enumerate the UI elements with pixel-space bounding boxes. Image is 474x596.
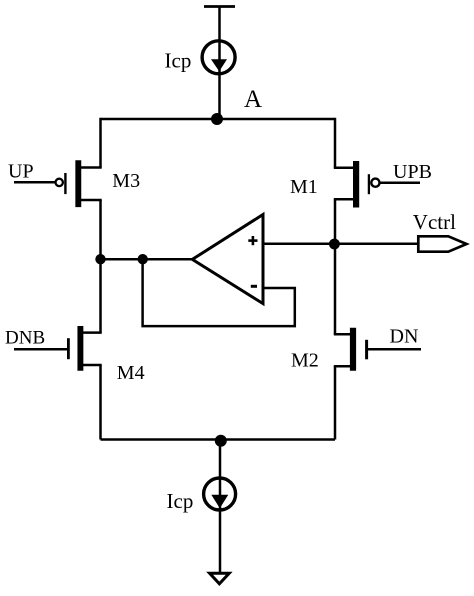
transistor M4 (NMOS) xyxy=(14,326,102,371)
wire: M3 source down to M4 drain (left rail) xyxy=(99,200,102,333)
current source I1 (top Icp) circle xyxy=(202,41,235,74)
output port Vctrl pointer xyxy=(418,236,466,251)
svg-text:Vctrl: Vctrl xyxy=(413,210,456,234)
M4 gate wire xyxy=(14,348,67,351)
M1 channel bar xyxy=(353,161,359,208)
wire supply to top current source xyxy=(218,7,221,120)
node dot feedback junction xyxy=(138,254,148,264)
M3 drain stub xyxy=(81,166,102,169)
current source I1 arrowhead xyxy=(211,59,227,71)
node dot on right rail xyxy=(329,239,340,250)
wire: op-amp output to left rail xyxy=(101,258,194,261)
transistor M1 (PMOS mirrored) xyxy=(334,161,420,208)
svg-text:UP: UP xyxy=(8,160,34,182)
M3 channel bar xyxy=(75,160,81,207)
op-amp U1 triangle xyxy=(192,215,263,304)
M1 drain stub xyxy=(334,166,354,169)
svg-text:M3: M3 xyxy=(112,170,140,192)
current source I2 arrowhead xyxy=(211,495,228,509)
M4 drain stub xyxy=(83,331,102,334)
M4 channel bar xyxy=(77,326,83,371)
svg-text:M2: M2 xyxy=(291,350,319,372)
node dot on left rail xyxy=(95,254,105,264)
M2 source stub xyxy=(334,365,351,368)
wire: M4 source down to bottom rail xyxy=(99,365,102,440)
M3 gate wire xyxy=(14,181,55,184)
M1 gate plate xyxy=(368,174,370,194)
svg-text:M1: M1 xyxy=(290,176,318,198)
M2 drain stub xyxy=(334,333,351,336)
M3 gate bubble xyxy=(56,179,63,186)
ground symbol xyxy=(210,573,230,584)
M2 gate plate xyxy=(365,340,368,360)
svg-text:DNB: DNB xyxy=(5,327,45,348)
svg-text:DN: DN xyxy=(390,326,419,348)
M2 gate wire xyxy=(368,348,421,351)
bottom rail wire xyxy=(101,438,336,441)
wire: op-amp + input to Vctrl port xyxy=(263,242,419,245)
bottom rail node dot xyxy=(215,435,227,447)
M1 gate wire xyxy=(380,181,420,184)
M4 source stub xyxy=(83,364,102,367)
transistor M2 (NMOS mirrored) xyxy=(334,328,421,371)
M1 gate bubble xyxy=(371,179,379,187)
node A dot xyxy=(211,113,223,125)
wire: top rail to M1 drain (right rail) xyxy=(334,118,337,168)
M1 source stub xyxy=(334,198,354,201)
M4 gate plate xyxy=(67,338,70,359)
op-amp minus sign xyxy=(251,285,257,288)
svg-text:UPB: UPB xyxy=(393,161,432,183)
M3 gate plate xyxy=(64,173,66,194)
current source I2 (bottom Icp) circle xyxy=(204,478,236,510)
svg-text:Icp: Icp xyxy=(165,49,192,73)
M3 source stub xyxy=(81,199,102,202)
op-amp plus sign xyxy=(248,236,257,245)
supply bar (top rail symbol) xyxy=(204,5,235,8)
svg-text:A: A xyxy=(244,86,262,113)
wire: M2 source down to bottom rail xyxy=(334,366,337,439)
wire: M1 source down to M2 drain (right rail) xyxy=(334,199,337,334)
svg-text:M4: M4 xyxy=(117,362,145,384)
M2 channel bar xyxy=(350,328,356,371)
transistor M3 (PMOS) xyxy=(14,160,102,207)
feedback wire loop xyxy=(143,259,295,326)
wire: bottom rail to ground xyxy=(219,440,222,574)
wire: top rail to M3 drain xyxy=(99,118,102,168)
svg-text:Icp: Icp xyxy=(167,489,194,513)
top rail wire xyxy=(101,118,336,121)
